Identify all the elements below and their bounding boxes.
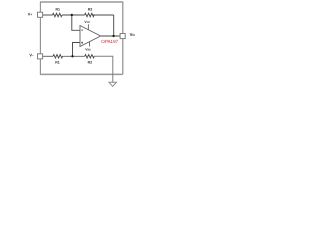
svg-text:R1: R1 [55,60,60,64]
op-amp supply stub Vcc [87,24,89,30]
svg-text:R2: R2 [88,61,93,65]
op-amp plus sign [81,41,83,44]
output node junction dot [112,35,114,37]
op-amp U1 OPA197 triangle [80,26,101,47]
wire R1 to R2 through node A [62,14,85,16]
terminal V- [38,54,43,59]
resistor R4 [85,55,94,58]
terminal Vo [120,34,125,39]
resistor R3 [53,55,62,58]
wire left rail through input terminals [39,2,41,75]
ground [109,82,116,86]
wire right rail above Vo terminal [122,2,124,34]
op-amp minus sign [81,29,83,32]
resistor R1 [53,13,62,16]
wire bottom guard [40,73,122,75]
node B junction dot [71,55,73,57]
wire V- to R3 [43,55,53,57]
wire top guard horizontal [40,1,122,3]
wire noninverting input [73,43,81,57]
terminal V+ [38,12,43,17]
node A junction dot [71,14,73,16]
svg-text:VCC: VCC [84,20,90,24]
svg-text:VO: VO [130,32,136,37]
wire R2 to feedback corner [93,14,114,16]
wire R3 to R4 through node B [62,55,84,57]
op-amp supply stub Vss [89,42,91,47]
wire R4 right to ground drop [94,56,113,82]
wire op-amp output to Vo [101,35,121,37]
wire V+ to R1 [43,14,53,16]
wire feedback vertical [113,15,115,36]
svg-text:R2: R2 [88,8,93,12]
wire right rail below Vo terminal [122,39,124,75]
svg-text:V+: V+ [28,11,33,16]
svg-text:R1: R1 [56,7,61,11]
svg-text:OPA197: OPA197 [101,39,118,44]
svg-text:V−: V− [29,53,34,58]
wire inverting input [72,15,80,30]
resistor R2 [85,13,94,16]
svg-text:VSS: VSS [85,48,91,52]
